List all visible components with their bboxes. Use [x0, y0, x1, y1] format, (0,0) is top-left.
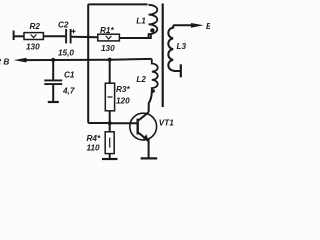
- svg-text:L1: L1: [136, 17, 146, 26]
- polarity dot L2: [151, 89, 155, 93]
- junction dot node A: [87, 35, 90, 38]
- capacitor C2: [65, 29, 67, 43]
- junction dot C1 tap: [51, 58, 55, 62]
- svg-text:110: 110: [87, 143, 100, 152]
- polarity dot L1: [150, 28, 154, 32]
- svg-text:L3: L3: [177, 42, 187, 51]
- wire R1 to L1 bottom: [119, 34, 150, 38]
- svg-text:R3*: R3*: [116, 85, 130, 94]
- L3 top wire and arrow to B out: [173, 24, 195, 26]
- transistor VT1: [130, 113, 157, 140]
- vertical wire node A down: [88, 37, 110, 123]
- svg-text:R4*: R4*: [87, 134, 101, 143]
- ground under R4: [109, 154, 111, 158]
- collector wire to L2: [149, 93, 152, 113]
- resistor R4: [109, 123, 111, 132]
- svg-text:VT1: VT1: [159, 119, 174, 128]
- resistor R2: [24, 33, 43, 40]
- inductor L1: [149, 5, 158, 38]
- svg-text:120: 120: [116, 97, 130, 106]
- resistor R3: [105, 83, 114, 111]
- junction dot node B: [108, 58, 112, 62]
- svg-text:R2: R2: [30, 22, 41, 31]
- emitter wire to ground: [148, 139, 150, 158]
- svg-text:В: В: [206, 22, 210, 31]
- inductor L2: [152, 59, 158, 93]
- wire terminal to R2: [14, 35, 24, 37]
- svg-text:15,0: 15,0: [58, 49, 74, 58]
- svg-text:4,7: 4,7: [62, 87, 75, 96]
- svg-text:2 В: 2 В: [0, 57, 9, 66]
- emitter arrow: [143, 134, 149, 142]
- L3 bottom wire to terminal: [173, 70, 181, 72]
- svg-text:C1: C1: [64, 71, 75, 80]
- wire node A up and over to L1 top: [88, 4, 147, 37]
- capacitor C1: [52, 60, 54, 80]
- resistor R1: [98, 34, 120, 41]
- wire node B down to R3: [109, 60, 111, 83]
- wire R3 to node D: [109, 111, 111, 123]
- svg-text:130: 130: [101, 44, 115, 53]
- svg-text:130: 130: [26, 43, 40, 52]
- transformer core: [162, 4, 164, 108]
- base wire node D to VT1: [110, 122, 137, 124]
- wire R2 to C2: [43, 35, 65, 37]
- svg-text:C2: C2: [58, 20, 69, 29]
- svg-text:R1*: R1*: [100, 26, 114, 35]
- arrow left 2V: [14, 58, 27, 63]
- junction dot node D: [108, 121, 112, 125]
- inductor L3: [168, 25, 173, 71]
- input terminal left: [13, 31, 15, 41]
- svg-text:L2: L2: [136, 75, 146, 84]
- output wire to B arrow, node B: [24, 59, 152, 60]
- wire C2 to R1, node A: [72, 36, 98, 39]
